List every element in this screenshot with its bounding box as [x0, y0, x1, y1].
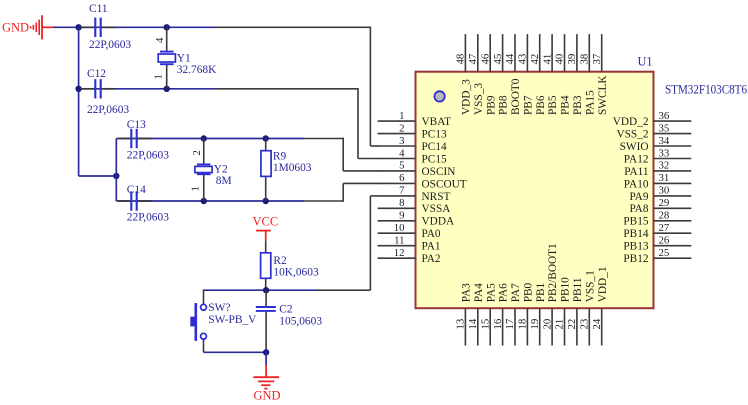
pin 35 VSS_2 (right) — [616, 122, 691, 140]
pin 23 VSS_1 (bottom) — [579, 270, 597, 345]
svg-text:VSSA: VSSA — [422, 203, 452, 215]
svg-text:PA10: PA10 — [624, 178, 649, 190]
pin 14 PA4 (bottom) — [467, 283, 485, 346]
svg-text:11: 11 — [394, 235, 404, 247]
svg-text:PB11: PB11 — [572, 278, 584, 303]
svg-text:8M: 8M — [216, 175, 232, 187]
pin 32 PA11 (right) — [624, 160, 691, 178]
pin 24 VDD_1 (bottom) — [591, 267, 609, 346]
wire C11 net dark segment to right — [216, 26, 370, 28]
svg-text:C13: C13 — [127, 119, 146, 131]
pin 29 PA8 (right) — [629, 197, 691, 215]
svg-text:27: 27 — [659, 222, 670, 234]
wire vertical up to pin 6 OSCOUT — [342, 183, 344, 201]
svg-text:PA7: PA7 — [510, 283, 522, 302]
pin 18 PB0 (bottom) — [517, 282, 535, 345]
svg-text:2: 2 — [191, 150, 203, 155]
wire vertical GND bus down left side — [78, 27, 80, 176]
svg-text:PB12: PB12 — [623, 253, 648, 265]
pin 7 NRST (left) — [378, 185, 451, 203]
resistor R2 — [261, 241, 271, 291]
svg-text:1: 1 — [399, 110, 404, 122]
node junction Y2 top — [201, 135, 207, 141]
svg-text:1M0603: 1M0603 — [273, 162, 312, 174]
svg-text:22P,0603: 22P,0603 — [87, 104, 129, 116]
svg-text:13: 13 — [455, 319, 467, 330]
svg-text:VSS_2: VSS_2 — [616, 129, 648, 141]
svg-text:46: 46 — [479, 53, 491, 64]
svg-text:6: 6 — [399, 172, 405, 184]
svg-text:8: 8 — [399, 197, 404, 209]
svg-text:PB3: PB3 — [572, 95, 584, 115]
node junction bracket — [113, 173, 119, 179]
svg-text:PB7: PB7 — [523, 95, 535, 115]
node junction Y2 bottom — [201, 198, 207, 204]
pin 46 PB9 (top) — [479, 34, 497, 115]
pin 42 PB6 (top) — [529, 34, 547, 115]
svg-text:OSCOUT: OSCOUT — [422, 178, 467, 190]
svg-text:33: 33 — [659, 147, 670, 159]
wire C13 net dark segment — [304, 138, 343, 140]
svg-text:2: 2 — [399, 122, 404, 134]
svg-text:1: 1 — [190, 186, 202, 191]
svg-text:24: 24 — [591, 318, 603, 329]
pin 44 BOOT0 (top) — [504, 34, 522, 115]
node junction NRST/R2/C2 — [263, 287, 269, 293]
svg-text:5: 5 — [399, 160, 404, 172]
svg-text:PB0: PB0 — [523, 282, 535, 302]
pin 22 PB11 (bottom) — [566, 278, 584, 346]
pin 47 VSS_3 (top) — [467, 34, 485, 115]
svg-text:20: 20 — [541, 319, 553, 330]
svg-text:29: 29 — [659, 197, 670, 209]
crystal Y1 32.768K — [158, 27, 175, 89]
svg-text:7: 7 — [399, 185, 405, 197]
power VCC — [253, 215, 279, 241]
svg-text:PB13: PB13 — [623, 241, 648, 253]
svg-text:STM32F103C8T6: STM32F103C8T6 — [665, 83, 747, 97]
svg-text:PA8: PA8 — [629, 203, 648, 215]
pin 6 OSCOUT (left) — [378, 172, 467, 190]
pin 48 VDD_3 (top) — [455, 34, 473, 115]
svg-text:10K,0603: 10K,0603 — [273, 266, 319, 278]
pin 37 SWCLK (top) — [591, 34, 609, 115]
svg-text:VSS_3: VSS_3 — [473, 83, 485, 115]
pin 45 PB8 (top) — [492, 34, 510, 115]
svg-text:18: 18 — [517, 319, 529, 330]
wire vertical down to pin 5 OSCIN — [342, 138, 344, 171]
svg-text:NRST: NRST — [422, 191, 451, 203]
capacitor C12 — [81, 79, 117, 98]
node junction C2/SW/GND — [263, 349, 269, 355]
svg-text:PA15: PA15 — [584, 90, 596, 115]
pin 30 PA9 (right) — [629, 185, 691, 203]
pin 40 PB4 (top) — [554, 34, 572, 115]
svg-text:12: 12 — [394, 247, 405, 259]
wire C14 net (y=201) — [152, 200, 304, 202]
wire vertical down to pin 3 PC14 — [369, 27, 371, 147]
svg-text:PA11: PA11 — [624, 166, 648, 178]
pin 5 OSCIN (left) — [378, 160, 456, 178]
svg-text:PC15: PC15 — [422, 153, 447, 165]
pin 13 PA3 (bottom) — [455, 283, 473, 346]
svg-text:PB14: PB14 — [623, 228, 648, 240]
pin 27 PB14 (right) — [623, 222, 691, 240]
pin 10 PA0 (left) — [378, 222, 441, 240]
node junction J1 (GND/C11) — [75, 24, 81, 30]
svg-text:1: 1 — [153, 74, 165, 79]
pin 25 PB12 (right) — [623, 247, 691, 265]
wire GND to C11/Y1 net (y=27) — [53, 26, 216, 28]
svg-text:25: 25 — [659, 247, 670, 259]
wire C13 net left part — [116, 138, 152, 140]
svg-text:PA3: PA3 — [461, 283, 473, 302]
svg-text:40: 40 — [554, 54, 566, 65]
svg-text:PB1: PB1 — [535, 283, 547, 302]
pin 38 PA15 (top) — [579, 34, 597, 115]
svg-text:Y2: Y2 — [214, 164, 228, 176]
svg-text:35: 35 — [659, 122, 670, 134]
svg-text:44: 44 — [504, 53, 516, 64]
pin 33 PA12 (right) — [624, 147, 692, 165]
svg-text:31: 31 — [659, 172, 670, 184]
node junction Y1 top — [164, 24, 170, 30]
pin 39 PB3 (top) — [566, 34, 584, 115]
pin 3 PC14 (left) — [378, 135, 447, 153]
wire C12 net dark segment — [216, 88, 358, 90]
node junction Y1 bottom — [164, 86, 170, 92]
capacitor C14 — [118, 191, 152, 210]
pin 43 PB7 (top) — [517, 34, 535, 115]
svg-text:43: 43 — [517, 54, 529, 65]
svg-text:42: 42 — [529, 54, 541, 65]
svg-text:39: 39 — [566, 54, 578, 65]
pin 1 indicator circle — [434, 91, 444, 101]
svg-text:C11: C11 — [89, 3, 108, 15]
svg-text:SW-PB_V: SW-PB_V — [208, 314, 257, 326]
wire into pin 7 — [370, 195, 378, 197]
ground GND (top left power ground) — [2, 15, 53, 39]
svg-text:U1: U1 — [638, 55, 653, 69]
svg-text:PB4: PB4 — [560, 95, 572, 115]
svg-text:3: 3 — [399, 135, 404, 147]
wire NRST vertical from pin 7 — [369, 196, 371, 290]
capacitor C11 — [81, 18, 117, 37]
wire into pin 3 — [370, 145, 378, 147]
wire C14 net dark segment — [304, 200, 343, 202]
node junction R9 top — [263, 135, 269, 141]
svg-text:30: 30 — [659, 185, 670, 197]
svg-text:45: 45 — [492, 54, 504, 65]
pin 15 PA5 (bottom) — [479, 283, 497, 346]
node junction R9 bottom — [263, 198, 269, 204]
svg-text:R2: R2 — [273, 255, 287, 267]
svg-text:VDD_1: VDD_1 — [597, 267, 609, 303]
svg-text:26: 26 — [659, 235, 670, 247]
capacitor C13 — [118, 129, 152, 148]
svg-text:VSS_1: VSS_1 — [584, 270, 596, 302]
svg-text:PA4: PA4 — [473, 283, 485, 302]
svg-text:PB8: PB8 — [498, 95, 510, 115]
svg-text:15: 15 — [479, 319, 491, 330]
svg-text:PA5: PA5 — [485, 283, 497, 302]
svg-text:17: 17 — [504, 318, 516, 329]
svg-text:32.768K: 32.768K — [177, 64, 217, 76]
pin 11 PA1 (left) — [378, 235, 441, 253]
pin 21 PB10 (bottom) — [554, 277, 572, 346]
svg-text:28: 28 — [659, 210, 670, 222]
wire NRST horizontal dark segment — [315, 289, 370, 291]
svg-text:22P,0603: 22P,0603 — [127, 150, 169, 162]
ground GND (bottom earth symbol) — [253, 365, 280, 403]
svg-text:16: 16 — [492, 318, 504, 329]
svg-text:22: 22 — [566, 319, 578, 330]
pin 2 PC13 (left) — [378, 122, 447, 140]
wire vertical down to pin 4 PC15 — [357, 88, 359, 159]
svg-text:C14: C14 — [127, 184, 146, 196]
wire C14 net left part — [116, 200, 152, 202]
wire switch bottom to GND junction — [204, 351, 267, 353]
svg-text:SWCLK: SWCLK — [597, 75, 609, 115]
pin 9 VDDA (left) — [378, 210, 455, 228]
svg-text:105,0603: 105,0603 — [279, 316, 322, 328]
wire down to GND symbol — [265, 352, 267, 365]
svg-text:PA9: PA9 — [629, 191, 648, 203]
svg-text:PA6: PA6 — [498, 283, 510, 302]
svg-text:PB15: PB15 — [623, 216, 648, 228]
pin 4 PC15 (left) — [378, 147, 447, 165]
svg-text:BOOT0: BOOT0 — [510, 78, 522, 115]
pin 17 PA7 (bottom) — [504, 283, 522, 346]
pin 31 PA10 (right) — [624, 172, 692, 190]
svg-text:SW?: SW? — [208, 302, 230, 314]
svg-text:PA2: PA2 — [422, 253, 441, 265]
svg-text:VBAT: VBAT — [422, 116, 452, 128]
svg-text:41: 41 — [541, 54, 553, 65]
wire GND bus to C13/C14 bracket — [79, 175, 117, 177]
pin 34 SWIO (right) — [620, 135, 692, 153]
capacitor C2 — [256, 290, 276, 352]
svg-text:VDD_3: VDD_3 — [461, 79, 473, 115]
pin 1 VBAT (left) — [378, 110, 451, 128]
svg-text:PB9: PB9 — [485, 95, 497, 115]
pin 12 PA2 (left) — [378, 247, 441, 265]
svg-text:37: 37 — [591, 53, 603, 64]
svg-text:21: 21 — [554, 319, 566, 330]
svg-text:22P,0603: 22P,0603 — [89, 39, 131, 51]
svg-text:VDD_2: VDD_2 — [613, 116, 649, 128]
pin 36 VDD_2 (right) — [613, 110, 692, 128]
svg-text:VDDA: VDDA — [422, 216, 455, 228]
svg-text:PB6: PB6 — [535, 95, 547, 115]
svg-text:SWIO: SWIO — [620, 141, 649, 153]
svg-text:Y1: Y1 — [177, 53, 191, 65]
wire C13 net (y=138) — [152, 138, 304, 140]
svg-text:PA1: PA1 — [422, 241, 441, 253]
svg-text:47: 47 — [467, 53, 479, 64]
wire NRST to R2/C2/SW junction — [266, 289, 315, 291]
op-amp U1 STM32F103C8T6 microcontroller body — [416, 72, 654, 309]
wire into pin 6 — [343, 182, 378, 184]
pin 20 PB2/BOOT1 (bottom) — [541, 243, 559, 345]
svg-text:R9: R9 — [273, 151, 287, 163]
pin 28 PB15 (right) — [623, 210, 691, 228]
svg-text:36: 36 — [659, 110, 670, 122]
svg-text:32: 32 — [659, 160, 670, 172]
svg-text:14: 14 — [467, 318, 479, 329]
svg-text:PC13: PC13 — [422, 129, 447, 141]
wire into pin 4 — [358, 158, 379, 160]
svg-text:GND: GND — [2, 21, 29, 35]
svg-text:PC14: PC14 — [422, 141, 447, 153]
pin 41 PB5 (top) — [541, 34, 559, 115]
svg-text:38: 38 — [579, 54, 591, 65]
svg-text:PB5: PB5 — [547, 95, 559, 115]
pin 19 PB1 (bottom) — [529, 283, 547, 346]
wire C12/Y1 net (y=89) — [79, 88, 216, 90]
wire bracket vertical (C13-C14) — [115, 139, 117, 202]
svg-text:PA0: PA0 — [422, 228, 441, 240]
svg-text:PA12: PA12 — [624, 153, 649, 165]
switch SW? SW-PB_V push button — [190, 290, 206, 353]
svg-text:48: 48 — [455, 54, 467, 65]
node junction J2 (C12 tap) — [75, 86, 81, 92]
pin 26 PB13 (right) — [623, 235, 691, 253]
wire reset top to switch corner — [204, 289, 267, 291]
resistor R9 — [261, 139, 271, 202]
svg-text:4: 4 — [154, 37, 166, 43]
svg-text:9: 9 — [399, 210, 404, 222]
svg-text:4: 4 — [399, 147, 405, 159]
svg-text:19: 19 — [529, 319, 541, 330]
svg-text:C12: C12 — [87, 68, 106, 80]
svg-text:34: 34 — [659, 135, 670, 147]
svg-text:22P,0603: 22P,0603 — [127, 212, 169, 224]
svg-text:C2: C2 — [279, 303, 293, 315]
crystal Y2 8M — [195, 139, 212, 202]
pin 16 PA6 (bottom) — [492, 283, 510, 346]
svg-text:10: 10 — [394, 222, 405, 234]
svg-text:PB10: PB10 — [560, 277, 572, 302]
wire into pin 5 — [343, 170, 378, 172]
svg-text:VCC: VCC — [253, 215, 279, 229]
svg-text:OSCIN: OSCIN — [422, 166, 456, 178]
svg-text:PB2/BOOT1: PB2/BOOT1 — [547, 243, 559, 302]
pin 8 VSSA (left) — [378, 197, 452, 215]
svg-text:GND: GND — [254, 389, 281, 403]
svg-text:23: 23 — [579, 319, 591, 330]
